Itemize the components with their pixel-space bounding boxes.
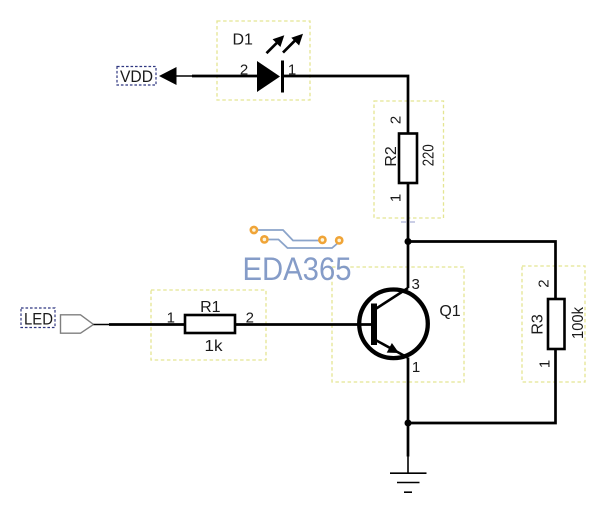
wire node to Q1 collector xyxy=(407,242,410,289)
logo pad A xyxy=(251,227,257,233)
wire node to ground xyxy=(407,423,410,457)
selection box D1 xyxy=(217,21,310,100)
resistor R3 xyxy=(530,279,588,368)
logo pad D xyxy=(336,237,342,243)
collector stroke xyxy=(376,288,409,309)
node junction bottom xyxy=(405,420,412,427)
port VDD xyxy=(117,67,156,87)
LED light arrow 1 xyxy=(267,42,278,53)
svg-text:1k: 1k xyxy=(205,338,223,355)
svg-text:2: 2 xyxy=(240,62,248,79)
svg-text:1: 1 xyxy=(388,194,405,202)
wire Q1 emitter to node xyxy=(407,358,410,424)
svg-text:R2: R2 xyxy=(383,146,400,167)
logo pad B xyxy=(261,236,267,242)
svg-text:D1: D1 xyxy=(232,32,253,49)
logo trace upper xyxy=(256,230,320,241)
port LED xyxy=(21,308,94,333)
EDA365 watermark logo xyxy=(243,227,352,287)
power arrow VDD xyxy=(159,67,177,85)
svg-text:1: 1 xyxy=(412,359,420,376)
logo pad C xyxy=(319,237,325,243)
wire node to R3 top xyxy=(408,242,556,300)
svg-text:R3: R3 xyxy=(530,314,547,335)
blue marker dashes xyxy=(401,221,415,223)
svg-text:220: 220 xyxy=(421,144,438,166)
emitter arrowhead xyxy=(387,343,399,353)
wire VDD to D1 anode xyxy=(192,75,258,78)
selection box Q1 xyxy=(332,267,464,382)
wire D1 cathode to R2 top corner xyxy=(284,76,408,134)
selection box R1 xyxy=(151,290,266,360)
ground xyxy=(390,473,427,492)
emitter stroke xyxy=(376,340,408,358)
svg-text:2: 2 xyxy=(388,116,405,124)
logo trace lower xyxy=(266,240,339,249)
pin wire VDD arrow xyxy=(177,75,194,77)
svg-text:Q1: Q1 xyxy=(439,303,460,320)
LED cathode bar xyxy=(281,61,284,93)
svg-text:1: 1 xyxy=(167,310,175,327)
LED light arrow 2 xyxy=(283,40,296,53)
pin wire port LED xyxy=(94,324,111,326)
svg-text:R1: R1 xyxy=(200,299,221,316)
svg-text:3: 3 xyxy=(412,276,420,293)
wire R1 to Q1 base xyxy=(235,323,372,326)
node junction top xyxy=(405,238,412,245)
svg-text:1: 1 xyxy=(537,360,554,368)
svg-text:LED: LED xyxy=(24,311,53,329)
svg-text:2: 2 xyxy=(536,279,553,287)
LED D1 xyxy=(232,32,303,93)
wire R2 bottom to node xyxy=(407,183,410,242)
svg-text:EDA365: EDA365 xyxy=(243,251,352,287)
pin wire ground xyxy=(407,456,409,473)
selection box R2 xyxy=(374,101,444,218)
resistor R1 xyxy=(167,299,254,355)
base bar xyxy=(371,304,377,346)
port pentagon symbol xyxy=(61,315,94,333)
wire R3 bottom to node xyxy=(408,349,556,423)
svg-text:100k: 100k xyxy=(570,307,587,339)
transistor Q1 xyxy=(359,276,461,376)
LED triangle xyxy=(257,61,280,92)
svg-text:VDD: VDD xyxy=(120,68,153,86)
resistor R2 xyxy=(383,116,438,202)
selection box R3 xyxy=(522,266,585,382)
wire port to R1 xyxy=(109,323,185,326)
